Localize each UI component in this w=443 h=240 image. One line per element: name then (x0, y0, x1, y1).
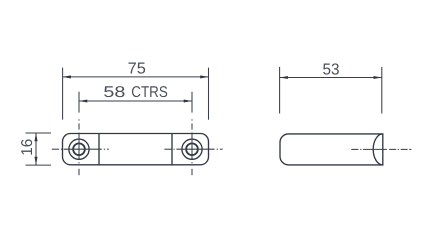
side view body outline (280, 134, 383, 165)
centerline horizontal right hole (164, 148, 222, 150)
dim 16 arrow top (34, 133, 37, 141)
dim 16 dimension line (35, 133, 37, 165)
dim 53 dimension line (280, 77, 382, 79)
svg-text:53: 53 (323, 62, 340, 79)
svg-text:58: 58 (103, 84, 125, 101)
centerline horizontal left hole (52, 148, 109, 150)
dim 58 extension line right (191, 92, 193, 113)
dim 75 extension line right (208, 68, 210, 120)
left hole counterbore circle (69, 139, 89, 159)
side view end ellipse arc (373, 134, 383, 165)
dim 53 arrow right (374, 76, 382, 79)
dim 58 arrow right (184, 99, 192, 102)
svg-text:CTRS: CTRS (131, 84, 168, 101)
plate inner division line right (171, 134, 173, 165)
right hole countersunk bore ring (186, 143, 198, 155)
left hole countersunk bore ring (73, 143, 85, 155)
dim 58 arrow left (79, 99, 87, 102)
dim 16 extension line top (26, 132, 52, 134)
dim 58 extension line left (78, 92, 80, 113)
dim 53 arrow left (280, 76, 288, 79)
right hole counterbore circle (182, 139, 202, 159)
dim 16 extension line bottom (26, 164, 52, 166)
plate inner division line left (98, 134, 100, 165)
svg-text:75: 75 (128, 61, 146, 78)
dim 16 arrow bottom (34, 157, 37, 165)
dim 75 arrow right (200, 75, 208, 78)
centerline horizontal side view (351, 148, 411, 150)
dim 58 dimension line (79, 100, 192, 102)
plate outline (front view) (63, 134, 209, 165)
dim 53 extension line right (381, 67, 383, 114)
dim 75 arrow left (63, 75, 71, 78)
dim 75 dimension line (63, 76, 209, 78)
dim 53 extension line left (279, 67, 281, 114)
centerline vertical left hole (78, 119, 80, 175)
dim 75 extension line left (62, 68, 64, 120)
svg-text:16: 16 (19, 139, 36, 156)
centerline vertical right hole (191, 119, 193, 175)
